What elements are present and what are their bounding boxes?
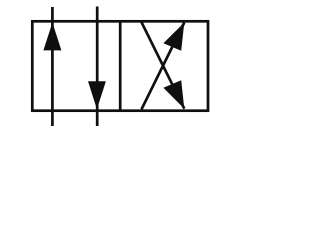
wire port P stub + flow shaft (up arrow): [51, 7, 54, 126]
arrowhead down (second flow path): [88, 81, 106, 109]
directional control valve symbol (4/2 valve): [0, 0, 222, 134]
wire port A stub + flow shaft (down arrow): [96, 7, 99, 127]
valve body outline: [32, 21, 208, 110]
wire crossed flow path (head down-right): [141, 22, 184, 109]
wire crossed flow path (head up-right): [142, 23, 185, 110]
position divider: [119, 21, 122, 110]
arrowhead up-right (crossed path): [163, 23, 184, 51]
arrowhead down-right (crossed path): [163, 80, 184, 109]
arrowhead up (left flow path): [43, 23, 61, 51]
